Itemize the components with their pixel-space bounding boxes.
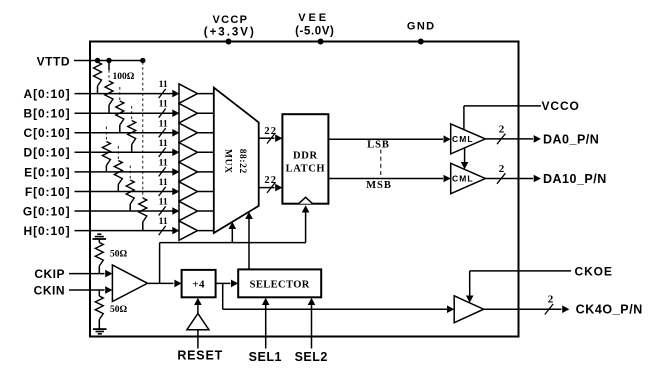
svg-text:CKIP: CKIP	[34, 267, 65, 281]
svg-text:VCCP: VCCP	[213, 14, 249, 26]
label B[0:10]	[24, 107, 71, 121]
label LSB	[367, 139, 390, 150]
svg-text:VTTD: VTTD	[37, 54, 70, 68]
label VCCP (+3.3V)	[204, 14, 256, 39]
svg-text:11: 11	[159, 216, 168, 227]
bus width 11 mark B	[159, 99, 168, 118]
wire CK4O output	[484, 305, 570, 313]
svg-text:50Ω: 50Ω	[110, 305, 128, 315]
bus width 2 mark CK4O	[545, 294, 554, 315]
bus width 22 mark lower	[264, 175, 277, 193]
wire RESET upper	[194, 298, 202, 314]
svg-text:11: 11	[159, 157, 168, 168]
svg-text:DA0_P/N: DA0_P/N	[543, 132, 599, 146]
wire LSB	[328, 135, 450, 143]
wire input H	[75, 227, 180, 235]
wire clock to MUX	[229, 222, 237, 243]
termination symbol upper (inverted ground)	[93, 234, 107, 242]
svg-text:LATCH: LATCH	[286, 163, 326, 174]
wire clock to DDR latch	[302, 205, 310, 242]
wire clock buffer to divider	[148, 280, 182, 288]
bus width 11 mark E	[159, 157, 168, 176]
resistor 100 ohm pullup B	[105, 61, 113, 114]
label D[0:10]	[24, 146, 71, 160]
label E[0:10]	[24, 165, 70, 179]
svg-text:CKIN: CKIN	[34, 283, 65, 297]
wire input D	[75, 149, 180, 157]
svg-text:+4: +4	[192, 279, 205, 291]
svg-text:2: 2	[499, 123, 505, 135]
label MSB	[366, 180, 392, 191]
bus width 11 mark D	[159, 138, 168, 157]
svg-text:E[0:10]: E[0:10]	[24, 165, 70, 179]
svg-text:50Ω: 50Ω	[110, 249, 128, 259]
wire input B	[75, 109, 180, 117]
label 50 ohm upper	[110, 249, 128, 259]
bus width 11 mark H	[159, 216, 168, 235]
resistor 100 ohm pullup A	[94, 61, 102, 94]
svg-text:11: 11	[159, 177, 168, 188]
input buffer E	[179, 162, 198, 181]
label VCCO	[542, 99, 580, 113]
label H[0:10]	[24, 224, 71, 238]
ellipsis LSB-MSB	[380, 150, 382, 176]
input buffer H	[179, 221, 198, 240]
resistor 100 ohm pullup E	[102, 127, 110, 172]
wire clock horizontal	[160, 242, 306, 244]
wire SEL2	[308, 298, 316, 349]
bus width 2 mark DA10	[497, 163, 505, 184]
input buffer G	[179, 201, 198, 220]
input buffer A	[179, 84, 198, 103]
svg-text:SEL2: SEL2	[295, 350, 328, 364]
junction VTTD-A	[95, 58, 100, 63]
svg-text:C[0:10]: C[0:10]	[24, 126, 71, 140]
power pin VEE junction	[318, 39, 324, 45]
wire input G	[75, 207, 180, 215]
svg-text:2: 2	[548, 294, 554, 306]
power pin GND junction	[418, 39, 424, 45]
ddr latch box	[282, 114, 328, 204]
wire clock riser	[159, 243, 161, 284]
label C[0:10]	[24, 126, 71, 140]
power pin VCCP junction	[226, 39, 232, 45]
svg-text:11: 11	[159, 79, 168, 90]
wire CKIP	[69, 270, 112, 278]
svg-text:(-5.0V): (-5.0V)	[295, 25, 334, 37]
svg-text:D[0:10]: D[0:10]	[24, 146, 71, 160]
svg-text:RESET: RESET	[177, 348, 223, 362]
resistor 50 ohm upper	[95, 243, 103, 274]
svg-text:CKOE: CKOE	[575, 264, 613, 278]
wire buffer H to MUX	[198, 230, 215, 232]
label DA0_P/N	[543, 132, 599, 146]
svg-text:11: 11	[159, 138, 168, 149]
input buffer C	[179, 123, 198, 142]
svg-text:CML: CML	[452, 134, 474, 144]
wire buffer C to MUX	[198, 132, 215, 134]
svg-text:CK4O_P/N: CK4O_P/N	[576, 303, 643, 317]
label GND	[407, 20, 436, 32]
svg-text:H[0:10]: H[0:10]	[24, 224, 71, 238]
wire MSB	[328, 175, 450, 183]
svg-text:CML: CML	[452, 174, 474, 184]
svg-text:100Ω: 100Ω	[112, 72, 134, 82]
resistor 100 ohm pullup H	[139, 62, 147, 231]
svg-text:DDR: DDR	[293, 151, 318, 162]
junction VTTD-H	[140, 58, 145, 63]
wire buffer A to MUX	[198, 93, 215, 95]
ddr latch clock wedge	[299, 197, 313, 203]
input buffer B	[179, 104, 198, 123]
cml buffer DA10	[451, 163, 486, 193]
wire buffer B to MUX	[198, 112, 215, 114]
cml buffer DA0	[451, 124, 486, 154]
label SEL1	[249, 350, 282, 364]
svg-text:11: 11	[159, 197, 168, 208]
label DA10_P/N	[543, 172, 607, 186]
input buffer D	[179, 143, 198, 162]
label CK4O_P/N	[576, 303, 643, 317]
wire buffer D to MUX	[198, 151, 215, 153]
input buffer F	[179, 182, 198, 201]
label VTTD	[37, 54, 70, 68]
svg-text:VCCO: VCCO	[542, 99, 580, 113]
wire VTTD rail	[74, 60, 143, 62]
label CKIN	[34, 283, 65, 297]
svg-text:MSB: MSB	[366, 180, 392, 191]
wire SEL1	[262, 298, 270, 349]
label SEL2	[295, 350, 328, 364]
clock input buffer	[112, 265, 147, 302]
wire input E	[75, 168, 180, 176]
wire input A	[75, 90, 180, 98]
ck4o output buffer	[454, 296, 483, 323]
bus width 11 mark F	[159, 177, 168, 196]
selector box	[238, 269, 321, 297]
label 100 ohm	[112, 72, 134, 82]
svg-text:SEL1: SEL1	[249, 350, 282, 364]
bus width 11 mark G	[159, 197, 168, 216]
wire bus MUX to DDR lower	[259, 184, 283, 192]
bus width 2 mark DA0	[497, 123, 505, 144]
wire SELECTOR to MUX	[245, 212, 253, 270]
wire VCCO	[464, 106, 541, 130]
wire CKIN	[69, 286, 112, 294]
svg-text:DA10_P/N: DA10_P/N	[543, 172, 607, 186]
svg-text:B[0:10]: B[0:10]	[24, 107, 71, 121]
wire VCCO to CML	[461, 148, 469, 169]
reset input buffer	[187, 314, 209, 330]
wire DA0 output	[485, 135, 541, 143]
wire buffer E to MUX	[198, 171, 215, 173]
wire DA10 output	[485, 175, 541, 183]
label G[0:10]	[23, 204, 71, 218]
svg-text:GND: GND	[407, 20, 436, 32]
wire RESET lower	[197, 330, 199, 349]
svg-text:VEE: VEE	[298, 12, 329, 24]
chip outline box	[90, 42, 519, 337]
label RESET	[177, 348, 223, 362]
svg-text:22: 22	[264, 126, 277, 137]
svg-text:SELECTOR: SELECTOR	[250, 279, 310, 290]
wire divider to CK4O buffer	[223, 283, 455, 313]
svg-text:2: 2	[499, 163, 505, 175]
wire buffer F to MUX	[198, 191, 215, 193]
resistor 100 ohm pullup C	[116, 87, 124, 133]
bus width 11 mark A	[159, 79, 168, 98]
svg-text:A[0:10]: A[0:10]	[24, 87, 71, 101]
svg-text:11: 11	[159, 118, 168, 129]
svg-text:22: 22	[264, 175, 277, 186]
wire bus MUX to DDR upper	[259, 134, 283, 142]
bus width 22 mark upper	[264, 126, 277, 144]
wire input F	[75, 188, 180, 196]
label F[0:10]	[25, 185, 71, 199]
label CKIP	[34, 267, 65, 281]
label A[0:10]	[24, 87, 71, 101]
resistor 100 ohm pullup G	[126, 166, 134, 212]
junction VTTD-B	[106, 58, 111, 63]
svg-text:11: 11	[159, 99, 168, 110]
bus width 11 mark C	[159, 118, 168, 137]
label VEE (-5.0V)	[295, 12, 334, 37]
label 50 ohm lower	[110, 305, 128, 315]
wire buffer G to MUX	[198, 210, 215, 212]
resistor 50 ohm lower	[95, 290, 103, 329]
wire input C	[75, 129, 180, 137]
mux 88:22	[214, 88, 259, 233]
label CKOE	[575, 264, 613, 278]
svg-text:MUX: MUX	[222, 149, 232, 174]
svg-text:F[0:10]: F[0:10]	[25, 185, 71, 199]
svg-text:(+3.3V): (+3.3V)	[204, 27, 256, 39]
resistor 100 ohm pullup F	[114, 146, 122, 192]
svg-text:LSB: LSB	[367, 139, 390, 150]
svg-text:G[0:10]: G[0:10]	[23, 204, 71, 218]
resistor 100 ohm pullup D	[128, 106, 136, 152]
divider +4 box	[182, 270, 216, 297]
ground symbol	[93, 329, 107, 334]
wire divider to selector	[216, 280, 239, 288]
svg-text:88:22: 88:22	[237, 149, 247, 174]
wire CKOE	[466, 271, 571, 303]
